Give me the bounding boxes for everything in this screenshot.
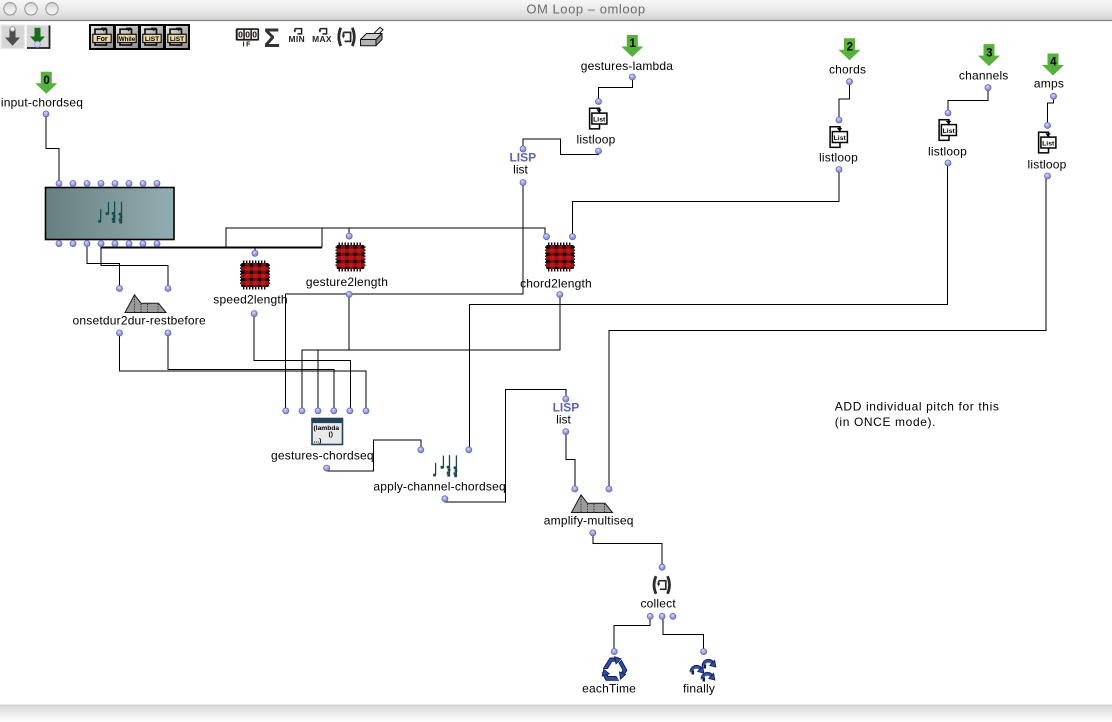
- svg-text:(in ONCE mode).: (in ONCE mode).: [835, 415, 936, 429]
- svg-text:2: 2: [847, 42, 853, 54]
- svg-text:...): ...): [314, 438, 322, 445]
- svg-text:MAX: MAX: [312, 34, 332, 44]
- svg-text:input-chordseq: input-chordseq: [1, 96, 83, 110]
- svg-text:Σ: Σ: [264, 23, 280, 53]
- svg-text:gestures-lambda: gestures-lambda: [581, 59, 674, 73]
- svg-text:gesture2length: gesture2length: [306, 275, 388, 289]
- svg-text:While: While: [119, 36, 136, 43]
- svg-text:1: 1: [629, 38, 636, 50]
- svg-text:apply-channel-chordseq: apply-channel-chordseq: [373, 480, 505, 494]
- svg-text:LiST: LiST: [145, 36, 159, 43]
- svg-text:0: 0: [245, 30, 250, 40]
- svg-text:LiST: LiST: [170, 36, 184, 43]
- svg-text:0: 0: [43, 75, 49, 87]
- svg-text:onsetdur2dur-restbefore: onsetdur2dur-restbefore: [73, 314, 206, 328]
- svg-text:listloop: listloop: [1028, 157, 1067, 171]
- svg-text:collect: collect: [640, 597, 676, 611]
- svg-text:3: 3: [986, 47, 992, 59]
- svg-text:MIN: MIN: [289, 34, 306, 44]
- svg-text:OM Loop – omloop: OM Loop – omloop: [526, 1, 645, 16]
- svg-text:listloop: listloop: [577, 133, 616, 147]
- svg-text:4: 4: [1050, 57, 1057, 69]
- svg-text:list: list: [513, 162, 528, 176]
- svg-text:(): (): [329, 431, 333, 438]
- svg-text:IF: IF: [243, 42, 252, 49]
- svg-text:0: 0: [252, 30, 257, 40]
- svg-text:(lambda: (lambda: [314, 425, 340, 432]
- svg-text:eachTime: eachTime: [582, 682, 636, 696]
- svg-text:list: list: [556, 413, 571, 427]
- svg-text:listloop: listloop: [928, 145, 967, 159]
- svg-text:amps: amps: [1034, 77, 1064, 91]
- svg-text:amplify-multiseq: amplify-multiseq: [544, 513, 634, 527]
- svg-text:listloop: listloop: [819, 151, 858, 165]
- svg-text:finally: finally: [683, 682, 715, 696]
- svg-text:speed2length: speed2length: [213, 293, 287, 307]
- svg-text:0: 0: [238, 30, 243, 40]
- svg-text:channels: channels: [959, 69, 1009, 83]
- svg-text:gestures-chordseq: gestures-chordseq: [271, 449, 374, 463]
- svg-text:chords: chords: [829, 63, 866, 77]
- svg-text:chord2length: chord2length: [520, 277, 592, 291]
- svg-text:For: For: [96, 36, 108, 43]
- svg-text:ADD individual pitch for this: ADD individual pitch for this: [835, 400, 1000, 414]
